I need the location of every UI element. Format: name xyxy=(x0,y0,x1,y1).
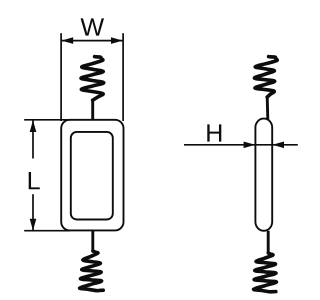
dimension W line xyxy=(62,40,123,42)
dimension L arrowhead top xyxy=(30,120,37,132)
dimension H line xyxy=(184,144,298,146)
outer body front view xyxy=(61,120,123,231)
wire bottom right xyxy=(267,231,270,254)
dimension L extension line bottom xyxy=(24,230,70,232)
wire top left xyxy=(91,99,94,121)
spring top left xyxy=(81,57,104,101)
spring bottom left xyxy=(80,251,104,291)
dimension H arrowhead left xyxy=(244,142,256,149)
dimension W arrowhead left xyxy=(61,37,73,44)
label H xyxy=(207,124,221,141)
spring top right xyxy=(254,57,277,97)
dimension H arrowhead right xyxy=(272,142,284,149)
dimension W extension line left xyxy=(60,33,62,121)
wire bottom left xyxy=(91,231,94,252)
dimension W arrowhead right xyxy=(111,37,123,44)
label L xyxy=(29,172,40,189)
dimension W extension line right xyxy=(122,33,124,121)
dimension L line upper segment xyxy=(32,120,34,158)
label W xyxy=(81,18,104,35)
dimension L extension line top xyxy=(24,119,70,121)
spring bottom right xyxy=(254,253,277,292)
dimension L line lower segment xyxy=(32,194,34,230)
dimension L arrowhead bottom xyxy=(30,219,37,231)
inner hole front view xyxy=(71,132,113,220)
side view body xyxy=(255,119,272,231)
wire top right xyxy=(266,97,269,120)
